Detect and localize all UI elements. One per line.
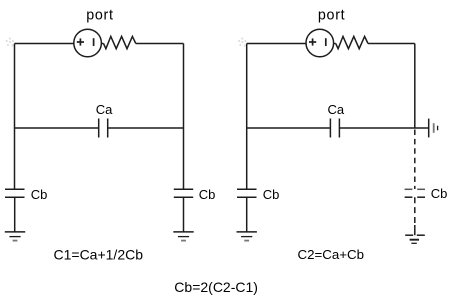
- plus symbol inside port: [77, 38, 84, 45]
- snap marker speckle left: [6, 38, 14, 47]
- capacitor Ca (right circuit) plates: [329, 119, 331, 138]
- wire below left Cb (right circuit): [246, 197, 248, 232]
- capacitor Cb (right circuit, left branch) plates: [237, 188, 257, 190]
- ground (right circuit, middle-right rotated): [428, 119, 430, 138]
- resistor R2 zigzag: [336, 36, 368, 48]
- ground (right circuit left): [237, 231, 257, 233]
- snap marker speckle right: [238, 38, 246, 47]
- middle wire left segment: [15, 127, 99, 129]
- wire below left Cb: [14, 197, 16, 232]
- svg-text:Ca: Ca: [328, 102, 345, 117]
- svg-text:port: port: [86, 8, 113, 24]
- svg-text:Cb: Cb: [31, 187, 48, 202]
- left vertical wire (right circuit): [246, 44, 248, 190]
- port source U1 circle: [74, 29, 102, 57]
- right vertical wire upper solid (right circuit): [414, 44, 416, 129]
- ground (right circuit right, dashed): [405, 234, 413, 236]
- ground (left circuit right): [173, 231, 193, 233]
- wire stub from port to resistor: [101, 43, 103, 45]
- svg-text:Cb: Cb: [431, 186, 448, 201]
- dashed vertical wire (right circuit right branch): [414, 130, 416, 190]
- capacitor Cb (left circuit, left branch) plates: [5, 188, 25, 190]
- resistor R1 zigzag: [104, 36, 136, 48]
- port source U2 circle: [306, 29, 334, 57]
- wire top-left horizontal (node to port): [15, 43, 74, 45]
- wire resistor to top-right corner: [136, 43, 184, 45]
- capacitor Ca (left circuit) plates: [98, 119, 100, 138]
- middle wire left segment (right circuit): [247, 127, 331, 129]
- middle wire right segment to ground tap: [339, 127, 428, 129]
- svg-text:Ca: Ca: [96, 102, 113, 117]
- svg-text:Cb: Cb: [263, 187, 280, 202]
- middle wire right segment: [108, 127, 184, 129]
- ground (left circuit left): [5, 231, 25, 233]
- wire resistor to top-right corner (right circuit): [368, 43, 415, 45]
- svg-text:Cb=2(C2-C1): Cb=2(C2-C1): [174, 279, 258, 295]
- wire stub from port to resistor (right): [334, 43, 336, 45]
- bar symbol inside port (right): [325, 38, 327, 46]
- wire top-left horizontal (right circuit): [247, 43, 306, 45]
- bar symbol inside port: [93, 38, 95, 46]
- dashed wire below right Cb: [414, 197, 416, 223]
- capacitor Cb (right circuit, right branch, dashed) plates: [405, 188, 425, 190]
- svg-text:C2=Ca+Cb: C2=Ca+Cb: [298, 247, 365, 262]
- right vertical wire (left circuit): [183, 44, 185, 190]
- svg-text:C1=Ca+1/2Cb: C1=Ca+1/2Cb: [54, 247, 144, 263]
- capacitor Cb (left circuit, right branch) plates: [174, 188, 193, 190]
- plus symbol inside port (right): [309, 38, 316, 45]
- left vertical wire: [14, 44, 16, 190]
- svg-text:port: port: [318, 8, 345, 24]
- wire below right Cb: [183, 197, 185, 232]
- svg-text:Cb: Cb: [199, 187, 216, 202]
